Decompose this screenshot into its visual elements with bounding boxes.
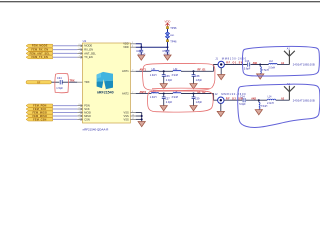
svg-text:C34: C34 (57, 76, 62, 80)
wire C13 to L12 (251, 64, 269, 66)
wire L31-L32 (159, 70, 173, 72)
pin numbers VSS (132, 111, 134, 120)
ground below C49 (138, 55, 145, 60)
wire J2 to C14 (224, 99, 243, 101)
svg-text:3: 3 (79, 118, 80, 120)
annotation blue loop antenna2 (238, 84, 320, 127)
svg-text:8: 8 (79, 104, 80, 106)
annotation red box around C34 (55, 73, 68, 92)
svg-text:VDD: VDD (123, 45, 129, 49)
port FEM_ANT_SEL (26, 52, 53, 56)
svg-text:PDN: PDN (84, 104, 90, 108)
ground below C38 (190, 84, 197, 89)
IC U1 body (83, 43, 131, 123)
sheet top border (0, 1, 320, 2)
pin TRX 1 (77, 81, 82, 83)
pin numbers left top (79, 44, 80, 57)
wire C34 to TRX pin (62, 81, 77, 83)
svg-text:1.8pF: 1.8pF (196, 101, 203, 104)
ground below J1 (220, 68, 222, 75)
svg-text:2.0nH: 2.0nH (268, 66, 275, 69)
svg-text:TX_EN: TX_EN (84, 55, 92, 59)
pin TX_EN 7 (77, 56, 82, 58)
wire jog down to J2 (214, 94, 218, 101)
svg-text:1.8pF: 1.8pF (196, 79, 203, 82)
port FEM_PDN (26, 104, 53, 108)
svg-text:7: 7 (79, 56, 80, 58)
svg-text:5: 5 (79, 48, 80, 50)
wire MODE (53, 45, 78, 47)
port FEM_RX_EN (26, 48, 53, 52)
pin numbers VDD (132, 42, 133, 47)
pin VSS 1 (130, 112, 135, 114)
svg-text:C13: C13 (245, 60, 250, 63)
junction (141, 118, 143, 120)
capacitor C37 (162, 94, 173, 106)
svg-text:SCK: SCK (84, 107, 90, 111)
annotation red stroke between loops (152, 87, 210, 90)
svg-text:2.0pF: 2.0pF (166, 101, 173, 104)
svg-text:C39: C39 (195, 97, 200, 100)
wire MISO (53, 115, 78, 117)
svg-text:VSS: VSS (123, 117, 128, 121)
wire CSN (53, 118, 78, 120)
svg-text:5.6pF: 5.6pF (244, 68, 251, 71)
svg-text:C14: C14 (240, 96, 245, 99)
port FEM_MOSI (26, 111, 53, 115)
port FEM_MODE (26, 44, 53, 48)
svg-text:4: 4 (79, 52, 80, 54)
svg-text:FEM_ANT_SEL: FEM_ANT_SEL (30, 52, 51, 55)
wire PDN (53, 105, 78, 107)
svg-text:TP36: TP36 (170, 26, 177, 30)
svg-text:9: 9 (79, 107, 80, 109)
junction node (258, 99, 260, 101)
svg-text:U1: U1 (83, 39, 87, 43)
IC pin names right (122, 42, 129, 122)
capacitor C13 (248, 62, 250, 66)
svg-text:7: 7 (132, 92, 133, 94)
inductor L31 (151, 69, 158, 72)
port FEM_SCK (26, 107, 53, 111)
junction node (193, 93, 195, 95)
wire J1 to C13 (224, 64, 247, 66)
svg-text:2.0pF: 2.0pF (166, 79, 173, 82)
svg-text:CSN: CSN (84, 117, 90, 121)
ground below C36 (160, 84, 167, 89)
test point TP36 (166, 27, 168, 29)
wire ANT2 (136, 93, 152, 95)
pin MOSI (77, 111, 82, 113)
svg-text:9: 9 (132, 111, 133, 113)
annotation blue loop antenna1 (242, 46, 319, 76)
capacitor C53 (162, 47, 170, 56)
svg-text:FEM_CSN: FEM_CSN (33, 118, 46, 121)
svg-text:6: 6 (79, 44, 80, 46)
svg-text:ANT1: ANT1 (122, 69, 129, 73)
svg-text:1.5pF: 1.5pF (56, 86, 63, 90)
svg-text:TRX: TRX (84, 80, 89, 84)
junction node (259, 64, 261, 66)
IC pin names left (84, 44, 96, 122)
pin VSS 2 (130, 115, 135, 117)
wire VSS bus (136, 113, 142, 122)
svg-text:5.6pF: 5.6pF (239, 103, 246, 106)
inductor L11 shunt (260, 67, 261, 74)
svg-text:ANT_SEL: ANT_SEL (84, 51, 96, 55)
capacitor C38 (192, 71, 203, 83)
junction (140, 46, 142, 48)
wire VDD upper jog (136, 44, 142, 47)
ground below C39 (190, 106, 197, 111)
ground below L11 (257, 74, 264, 79)
port FEM_MISO (26, 114, 53, 118)
svg-text:VSS: VSS (123, 110, 128, 114)
junction (167, 46, 169, 48)
annotation red loop row2 (147, 91, 213, 112)
inductor L32 (173, 70, 181, 71)
pin SCK (77, 108, 82, 110)
svg-text:VSS: VSS (123, 114, 128, 118)
wire L12 to antenna A1 (277, 64, 289, 66)
ground below C53 (164, 55, 171, 60)
svg-text:C37: C37 (165, 97, 170, 100)
inductor L14 (267, 99, 276, 100)
pin CSN (77, 118, 82, 120)
capacitor C36 (162, 71, 173, 83)
capacitor C49 (136, 47, 145, 56)
svg-text:1.9nH: 1.9nH (150, 74, 157, 77)
pin VSS 3 (130, 118, 135, 120)
connector J2 MM8130-2600 (215, 92, 246, 103)
ground below J2 (220, 103, 222, 111)
svg-text:nRF21540: nRF21540 (97, 91, 114, 95)
pin ANT1 (130, 70, 135, 72)
svg-text:TP46: TP46 (170, 39, 177, 43)
svg-text:MODE: MODE (84, 44, 92, 48)
wire SCK (53, 108, 78, 110)
harness RF pill port (26, 81, 52, 85)
svg-text:17: 17 (132, 118, 134, 120)
pin numbers left bottom (79, 104, 80, 120)
port FEM_CSN (26, 118, 53, 122)
svg-text:3.9nH: 3.9nH (172, 96, 179, 99)
svg-text:VDD: VDD (123, 42, 129, 46)
wire L32 to jog (181, 70, 214, 72)
svg-text:AN1: AN1 (253, 62, 258, 65)
svg-text:RF_O1: RF_O1 (198, 69, 207, 72)
junction node (193, 70, 195, 72)
wire L34 to jog (181, 93, 214, 95)
svg-text:2: 2 (79, 114, 80, 116)
ferrite bead FB1 (166, 32, 170, 38)
inductor L34 (173, 93, 181, 94)
test point TP46 (166, 40, 168, 42)
wire ANT_SEL (53, 52, 78, 54)
pin ANT_SEL 4 (77, 52, 82, 54)
svg-text:MISO: MISO (84, 114, 91, 118)
pin MISO (77, 115, 82, 117)
svg-text:FEM_RX_EN: FEM_RX_EN (31, 49, 48, 52)
svg-text:13: 13 (132, 114, 134, 116)
wire TX_EN (53, 56, 78, 58)
svg-text:FEM_MODE: FEM_MODE (32, 45, 48, 48)
svg-text:7.5nH: 7.5nH (262, 69, 269, 72)
capacitor C14 (243, 98, 245, 102)
ground below C37 (160, 106, 167, 111)
svg-text:1: 1 (79, 111, 80, 113)
pin MODE 6 (77, 45, 82, 47)
svg-text:2450AT18B100B: 2450AT18B100B (293, 64, 315, 67)
junction node (163, 70, 165, 72)
ground below VSS (138, 122, 145, 127)
svg-text:RX_EN: RX_EN (84, 48, 93, 52)
wire VDD bus (136, 46, 168, 48)
wire L33-L34 (159, 93, 173, 95)
pin PDN (77, 105, 82, 107)
inductor L33 (151, 92, 158, 95)
svg-text:4: 4 (132, 46, 133, 48)
connector J1 MM8130-2600 (215, 56, 246, 67)
capacitor C34 (60, 80, 62, 84)
wire MOSI (53, 112, 78, 114)
svg-text:C38: C38 (195, 75, 200, 78)
svg-text:MOSI: MOSI (84, 110, 91, 114)
svg-text:nRF21540-QDAA-R: nRF21540-QDAA-R (83, 128, 109, 132)
wire C14 to L14 (246, 99, 267, 101)
svg-text:C36: C36 (165, 75, 170, 78)
svg-text:TRX: TRX (70, 80, 75, 83)
antenna A1 (284, 50, 295, 64)
junction (141, 115, 143, 117)
wire jog up to J1 (214, 65, 219, 72)
svg-text:ANT2: ANT2 (140, 91, 147, 94)
svg-text:1.9nH: 1.9nH (150, 96, 157, 99)
junction node (163, 93, 165, 95)
wire ANT1 (136, 70, 152, 72)
wire L14 to antenna A2 (276, 99, 290, 101)
inductor L12 (269, 63, 278, 64)
ground below L13 (255, 110, 262, 115)
annotation red loop row1 (143, 63, 215, 90)
pin ANT2 (130, 93, 135, 95)
nordic logo U1 (97, 72, 113, 89)
svg-text:2.0nH: 2.0nH (267, 102, 274, 105)
svg-text:5: 5 (132, 42, 133, 44)
svg-text:AN2: AN2 (251, 98, 256, 101)
pin VDD lower (130, 46, 135, 48)
pin RX_EN 5 (77, 49, 82, 51)
pin VDD upper (130, 43, 135, 45)
svg-text:3.9nH: 3.9nH (172, 74, 179, 77)
svg-text:FEM_TX_EN: FEM_TX_EN (32, 56, 49, 59)
inductor L13 shunt (259, 102, 260, 109)
port FEM_TX_EN (26, 56, 53, 60)
capacitor C39 (192, 94, 203, 106)
svg-text:C49: C49 (136, 49, 141, 53)
svg-text:MM8130-2600: MM8130-2600 (222, 56, 247, 60)
wire RF to C34 (52, 81, 60, 83)
wire VDD rail (167, 27, 169, 33)
svg-text:2: 2 (132, 70, 133, 72)
antenna A2 (284, 86, 295, 101)
wire RX_EN (53, 49, 78, 51)
power port VDD (165, 20, 171, 27)
svg-text:2450AT18B100B: 2450AT18B100B (293, 99, 315, 102)
svg-text:7.5nH: 7.5nH (261, 105, 268, 108)
wire rail lower (167, 38, 169, 47)
svg-text:ANT2: ANT2 (122, 91, 129, 95)
svg-text:C53: C53 (162, 49, 167, 53)
